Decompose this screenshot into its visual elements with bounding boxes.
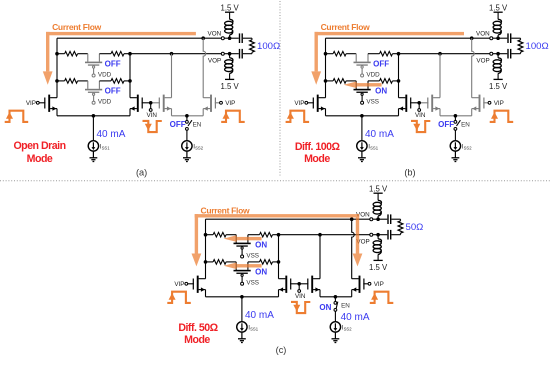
label 1.5V top (a) xyxy=(220,4,239,13)
capacitor C1 (c) xyxy=(387,214,391,224)
transistor M1 (c) xyxy=(188,276,206,293)
svg-text:100Ω: 100Ω xyxy=(526,41,549,52)
wire M3 source down (b) xyxy=(439,109,441,116)
label VIP left (c) xyxy=(174,281,184,288)
node row2 right (a) xyxy=(128,79,132,83)
current flow arrows (c) xyxy=(192,214,363,266)
wire M2 source down (a) xyxy=(129,109,131,116)
pin EN bottom (b) xyxy=(454,127,457,130)
node tail1 (c) xyxy=(240,295,244,299)
label ISS1 (b) xyxy=(368,143,378,150)
current flow row2 arrow (c) xyxy=(224,263,262,270)
label VOP (c) xyxy=(356,238,369,245)
power 1.5V bottom bar (c) xyxy=(374,259,383,261)
wire tail1 (a) xyxy=(57,115,130,117)
waveform VIP pulse right (a) xyxy=(221,111,245,122)
wire M3 source down (a) xyxy=(171,109,173,116)
svg-text:ISS1: ISS1 xyxy=(100,143,110,150)
wire switch to R2B (b) xyxy=(368,80,380,82)
svg-text:VON: VON xyxy=(476,30,490,37)
pmos switch SW2 (a) xyxy=(85,81,102,104)
svg-text:Current Flow: Current Flow xyxy=(52,22,102,32)
wire load top corner (c) xyxy=(400,219,402,221)
label SW2 gate supply (c) xyxy=(246,280,259,287)
label Current Flow (c) xyxy=(201,206,251,216)
svg-text:VDD: VDD xyxy=(98,72,112,79)
label 40 mA ISS1 (a) xyxy=(97,129,126,140)
wire M1 source down (a) xyxy=(56,109,58,116)
svg-text:ISS2: ISS2 xyxy=(342,324,352,331)
label 40 mA ISS1 (c) xyxy=(245,310,274,321)
pin VON (b) xyxy=(490,37,493,40)
label 1.5V bottom (a) xyxy=(220,82,239,91)
pin VIN (c) xyxy=(298,290,301,293)
svg-text:40 mA: 40 mA xyxy=(365,129,394,140)
node VON-drain junction (a) xyxy=(201,36,205,40)
label load value (b) xyxy=(526,41,549,52)
node tail2 (a) xyxy=(185,114,189,118)
power 1.5V top bar (b) xyxy=(494,11,503,13)
label VIN (b) xyxy=(415,112,426,119)
wire row2 to switch (c) xyxy=(226,261,236,263)
wire VON rail (a) xyxy=(57,37,203,39)
svg-text:OFF: OFF xyxy=(373,60,389,69)
pin VOP (c) xyxy=(370,233,373,236)
svg-text:Mode: Mode xyxy=(184,334,210,346)
label VIP left (b) xyxy=(294,100,304,107)
node tail1 (b) xyxy=(360,114,364,118)
resistor R1B (c) xyxy=(260,232,273,237)
pin EN bottom (c) xyxy=(334,309,337,312)
wire tail1 (b) xyxy=(326,115,399,117)
wire L1 to VON (c) xyxy=(377,216,379,219)
wire row1 left segment (a) xyxy=(57,53,65,55)
node row1 left (c) xyxy=(204,233,208,237)
label SW2 gate supply (a) xyxy=(98,99,112,106)
wire M4 source down (b) xyxy=(471,109,473,116)
ground ISS2 (c) xyxy=(332,332,340,342)
wire row2 left segment (b) xyxy=(326,80,334,82)
capacitor C2 (a) xyxy=(239,49,243,59)
transistor M2 (a) xyxy=(130,95,151,112)
svg-text:VSS: VSS xyxy=(246,280,259,287)
pmos switch SW1 (b) xyxy=(354,54,371,77)
wire row1 to switch (b) xyxy=(346,53,356,55)
resistor R2B (b) xyxy=(380,79,393,84)
pmos switch SW1 (a) xyxy=(85,54,102,77)
wire C1 to load (a) xyxy=(243,37,252,39)
capacitor C1 (b) xyxy=(507,33,511,43)
caption (a) xyxy=(136,167,147,177)
current flow arrow (b) xyxy=(311,32,464,85)
wire VOP line (b) xyxy=(399,53,490,55)
waveform VIP pulse left (c) xyxy=(167,292,191,303)
label SW1 state (a) xyxy=(105,60,121,69)
pin EN top (b) xyxy=(454,121,457,124)
wire VON to output (b) xyxy=(472,37,490,39)
wire VON out (b) xyxy=(493,37,508,39)
wire switch to R1B (b) xyxy=(368,53,380,55)
transistor M2 (c) xyxy=(279,276,300,293)
wire M4 source down (c) xyxy=(351,290,353,297)
svg-text:ISS2: ISS2 xyxy=(193,143,203,150)
transistor M4 (c) xyxy=(352,276,368,293)
node tail1 (a) xyxy=(92,114,96,118)
wire VON out (c) xyxy=(373,218,388,220)
wire switch to R1B (a) xyxy=(99,53,111,55)
node row1 right (b) xyxy=(397,52,401,56)
wire M3 drain rail (a) xyxy=(171,54,173,98)
node row2 right (c) xyxy=(277,260,281,264)
caption (c) xyxy=(276,345,287,355)
svg-text:OFF: OFF xyxy=(438,120,454,129)
svg-text:VDD: VDD xyxy=(98,99,112,106)
wire M2 source down (c) xyxy=(278,290,280,297)
pmos switch SW1 (c) xyxy=(234,235,251,258)
resistor RL (b) xyxy=(518,40,523,52)
power 1.5V bottom bar (b) xyxy=(494,78,503,80)
pmos switch SW2 (b) xyxy=(354,81,371,104)
svg-text:Open Drain: Open Drain xyxy=(13,140,65,152)
inductor L1 (c) xyxy=(373,200,381,216)
wire VON rail (c) xyxy=(206,218,352,220)
wire C2 to load (c) xyxy=(391,234,400,236)
ground ISS2 (a) xyxy=(183,151,191,161)
capacitor C2 (b) xyxy=(507,49,511,59)
wire supply to L1 (a) xyxy=(229,12,231,19)
wire L2 to supply (c) xyxy=(377,254,379,260)
waveform VIP pulse left (a) xyxy=(5,111,29,122)
wire VOP to L2 (a) xyxy=(229,54,231,58)
svg-text:ISS2: ISS2 xyxy=(462,143,472,150)
svg-text:VIP: VIP xyxy=(26,100,36,107)
label VOP (b) xyxy=(476,57,489,64)
svg-text:100Ω: 100Ω xyxy=(257,41,280,52)
wire row2 to switch (a) xyxy=(78,80,88,82)
wire VIN stub (c) xyxy=(298,284,300,290)
wire row1 left segment (b) xyxy=(326,53,334,55)
wire M3 source down (c) xyxy=(319,290,321,297)
power 1.5V top bar (c) xyxy=(374,192,383,194)
label VIP left (a) xyxy=(26,100,36,107)
label ISS2 (a) xyxy=(193,143,203,150)
label SW2 state (c) xyxy=(255,268,267,277)
label EN state (c) xyxy=(319,303,331,312)
inductor L2 (b) xyxy=(493,58,501,74)
wire VIN to M3 gate (b) xyxy=(421,102,428,104)
node VON-inductor (b) xyxy=(496,36,500,40)
wire supply to L1 (c) xyxy=(377,193,379,200)
node VOP-inductor (c) xyxy=(376,233,380,237)
wire load bottom corner (c) xyxy=(400,233,402,235)
wire right rail (c) xyxy=(278,235,280,279)
wire tail2 stem (b) xyxy=(454,116,456,121)
svg-text:50Ω: 50Ω xyxy=(406,222,424,233)
current flow row1 arrow (c) xyxy=(224,235,262,242)
label EN state (b) xyxy=(438,120,454,129)
svg-text:Mode: Mode xyxy=(304,153,330,165)
current source ISS1 (b) xyxy=(357,141,367,151)
wire VON rail (b) xyxy=(326,37,472,39)
wire M4 drain rail with hop (a) xyxy=(203,38,206,97)
node VIN junction (a) xyxy=(149,101,153,105)
wire switch to R1B (c) xyxy=(248,234,260,236)
svg-text:VSS: VSS xyxy=(366,99,379,106)
wire row2 to switch (b) xyxy=(346,80,356,82)
node VON-inductor (c) xyxy=(376,217,380,221)
power 1.5V bottom bar (a) xyxy=(225,78,234,80)
caption (b) xyxy=(404,167,415,177)
svg-text:40 mA: 40 mA xyxy=(97,129,126,140)
inductor L1 (a) xyxy=(225,19,233,35)
node VOP-M3 junction (b) xyxy=(438,52,442,56)
svg-text:Current Flow: Current Flow xyxy=(321,22,371,32)
pin EN top (a) xyxy=(186,121,189,124)
label 1.5V bottom (b) xyxy=(489,82,508,91)
wire VON out (a) xyxy=(224,37,239,39)
label VON (a) xyxy=(208,30,222,37)
svg-text:OFF: OFF xyxy=(170,120,186,129)
label SW1 gate supply (b) xyxy=(366,72,380,79)
wire load top corner (b) xyxy=(520,38,522,40)
label VON (b) xyxy=(476,30,490,37)
label load value (c) xyxy=(406,222,424,233)
label EN (a) xyxy=(193,121,202,128)
wire row1 to switch (c) xyxy=(226,234,236,236)
svg-text:ON: ON xyxy=(375,87,387,96)
wire VOP out (b) xyxy=(493,53,508,55)
node VOP-inductor (b) xyxy=(496,52,500,56)
wire tail2 stem (a) xyxy=(186,116,188,121)
node row2 left (a) xyxy=(55,79,59,83)
label load value (a) xyxy=(257,41,280,52)
wire M4 drain rail with hop (c) xyxy=(352,219,355,279)
wire L1 to VON (a) xyxy=(229,35,231,38)
wire tail2 stem (c) xyxy=(334,297,336,302)
waveform VIN pulse (b) xyxy=(411,121,430,132)
pin VIP left (c) xyxy=(185,282,188,285)
wire M1 source down (c) xyxy=(205,290,207,297)
wire C2 to load (b) xyxy=(511,53,520,55)
wire tail1 (c) xyxy=(206,296,279,298)
current source ISS1 (a) xyxy=(88,141,98,151)
wire tail1 stem (a) xyxy=(92,116,94,141)
switch EN blade open (a) xyxy=(188,120,192,126)
wire C1 to load (c) xyxy=(391,218,400,220)
ground ISS1 (a) xyxy=(90,151,98,161)
wire EN to ISS2 (c) xyxy=(334,311,336,321)
wire M2 source down (b) xyxy=(398,109,400,116)
node row1 left (a) xyxy=(55,52,59,56)
inductor L1 (b) xyxy=(493,19,501,35)
inductor L2 (a) xyxy=(225,58,233,74)
wire row2 right segment (c) xyxy=(273,261,279,263)
node row1 right (a) xyxy=(128,52,132,56)
svg-text:EN: EN xyxy=(341,302,350,309)
wire left rail (a) xyxy=(56,38,58,97)
node VOP-M3 junction (a) xyxy=(170,52,174,56)
resistor R1B (b) xyxy=(380,51,393,56)
svg-text:VDD: VDD xyxy=(366,72,380,79)
node row1 left (b) xyxy=(324,52,328,56)
current source ISS2 (a) xyxy=(182,141,192,151)
wire M3 drain rail (b) xyxy=(439,54,441,98)
switch EN blade closed (c) xyxy=(336,302,338,309)
separator horizontal dotted xyxy=(0,180,550,182)
svg-text:ISS1: ISS1 xyxy=(368,143,378,150)
node row2 left (b) xyxy=(324,79,328,83)
wire VOP to L2 (c) xyxy=(377,235,379,239)
waveform VIN pulse (c) xyxy=(291,302,310,313)
switch EN blade open (b) xyxy=(457,120,461,126)
transistor M4 (b) xyxy=(472,95,488,112)
node VOP-M3 junction (c) xyxy=(318,233,322,237)
wire row2 left segment (a) xyxy=(57,80,65,82)
power 1.5V top bar (a) xyxy=(225,11,234,13)
transistor M3 (b) xyxy=(427,95,440,112)
label VIN (c) xyxy=(295,293,306,300)
transistor M3 (c) xyxy=(307,276,320,293)
wire load top corner (a) xyxy=(251,38,253,40)
pin VIP right (a) xyxy=(220,101,223,104)
wire VIN to M3 gate (a) xyxy=(153,102,160,104)
wire row2 left segment (c) xyxy=(206,261,214,263)
svg-text:Diff. 100Ω: Diff. 100Ω xyxy=(295,141,341,153)
svg-text:VSS: VSS xyxy=(246,253,259,260)
wire C1 to load (b) xyxy=(511,37,520,39)
svg-text:1.5 V: 1.5 V xyxy=(220,82,239,91)
svg-text:VOP: VOP xyxy=(208,57,221,64)
wire L1 to VON (b) xyxy=(497,35,499,38)
label VON (c) xyxy=(356,211,370,218)
waveform VIP pulse right (c) xyxy=(370,292,394,303)
svg-text:VIN: VIN xyxy=(146,112,157,119)
node VON-inductor (a) xyxy=(228,36,232,40)
node row1 right (c) xyxy=(277,233,281,237)
ground ISS1 (b) xyxy=(358,151,366,161)
wire VOP line (c) xyxy=(279,234,370,236)
label ISS2 (c) xyxy=(342,324,352,331)
svg-text:VOP: VOP xyxy=(476,57,489,64)
resistor R2B (c) xyxy=(260,260,273,265)
label ISS1 (c) xyxy=(248,324,258,331)
label VIP right (c) xyxy=(374,281,384,288)
waveform VIP pulse left (b) xyxy=(286,111,310,122)
svg-text:VIN: VIN xyxy=(295,293,306,300)
label Current Flow (a) xyxy=(52,22,102,32)
pin VIP right (c) xyxy=(368,282,371,285)
label VOP (a) xyxy=(208,57,221,64)
label SW1 state (b) xyxy=(373,60,389,69)
inductor L2 (c) xyxy=(373,239,381,255)
wire load bottom corner (a) xyxy=(251,52,253,54)
svg-text:VIP: VIP xyxy=(494,100,504,107)
current flow row2 arrow (b) xyxy=(344,82,382,89)
svg-text:(a): (a) xyxy=(136,167,147,177)
wire left rail (b) xyxy=(325,38,327,97)
svg-text:1.5 V: 1.5 V xyxy=(220,4,239,13)
pin VOP (b) xyxy=(490,52,493,55)
wire tail2 (a) xyxy=(172,115,204,117)
pin VIN (a) xyxy=(149,109,152,112)
label SW2 state (b) xyxy=(375,87,387,96)
svg-text:(c): (c) xyxy=(276,345,287,355)
label SW1 gate supply (a) xyxy=(98,72,112,79)
label ISS1 (a) xyxy=(100,143,110,150)
node tail2 (b) xyxy=(454,114,458,118)
svg-text:OFF: OFF xyxy=(105,60,121,69)
label SW1 gate supply (c) xyxy=(246,253,259,260)
node VON-drain junction (b) xyxy=(470,36,474,40)
label Diff 50 Mode (c) xyxy=(178,322,218,346)
label VIP right (a) xyxy=(225,100,235,107)
svg-text:VIP: VIP xyxy=(174,281,184,288)
pin EN top (c) xyxy=(334,302,337,305)
node VON-drain junction (c) xyxy=(350,217,354,221)
wire load bottom corner (b) xyxy=(520,52,522,54)
pmos switch SW2 (c) xyxy=(234,262,251,285)
current flow arrow (a) xyxy=(43,32,196,85)
waveform VIP pulse right (b) xyxy=(490,111,514,122)
wire VON to output (a) xyxy=(203,37,221,39)
wire row1 right segment (a) xyxy=(124,53,130,55)
wire tail2 (b) xyxy=(440,115,472,117)
wire VOP line (a) xyxy=(130,53,221,55)
wire tail1 stem (b) xyxy=(361,116,363,141)
label EN state (a) xyxy=(170,120,186,129)
svg-text:OFF: OFF xyxy=(105,87,121,96)
svg-text:1.5 V: 1.5 V xyxy=(489,4,508,13)
wire L2 to supply (b) xyxy=(497,73,499,79)
wire row1 to switch (a) xyxy=(78,53,88,55)
wire VIN stub (b) xyxy=(418,103,420,109)
wire row2 right segment (b) xyxy=(393,80,399,82)
current source ISS2 (c) xyxy=(330,322,340,332)
label SW2 state (a) xyxy=(105,87,121,96)
wire VOP to L2 (b) xyxy=(497,54,499,58)
svg-text:1.5 V: 1.5 V xyxy=(489,82,508,91)
node row2 right (b) xyxy=(397,79,401,83)
wire VIN stub (a) xyxy=(150,103,152,109)
svg-text:40 mA: 40 mA xyxy=(245,310,274,321)
label SW2 gate supply (b) xyxy=(366,99,379,106)
wire VOP out (c) xyxy=(373,234,388,236)
svg-text:ON: ON xyxy=(255,268,267,277)
svg-text:VIP: VIP xyxy=(374,281,384,288)
label Diff 100 Mode (b) xyxy=(295,141,341,165)
svg-text:ON: ON xyxy=(255,241,267,250)
label 1.5V bottom (c) xyxy=(369,263,388,272)
wire supply to L1 (b) xyxy=(497,12,499,19)
resistor R1A (a) xyxy=(65,51,78,56)
resistor R2B (a) xyxy=(111,79,124,84)
resistor R1A (c) xyxy=(213,232,226,237)
wire row1 right segment (b) xyxy=(393,53,399,55)
transistor M2 (b) xyxy=(399,95,420,112)
wire tail2 (c) xyxy=(320,296,352,298)
transistor M1 (b) xyxy=(308,95,326,112)
wire row1 right segment (c) xyxy=(273,234,279,236)
waveform VIN pulse (a) xyxy=(143,121,162,132)
label 40 mA ISS1 (b) xyxy=(365,129,394,140)
label EN (b) xyxy=(461,121,470,128)
resistor R1A (b) xyxy=(333,51,346,56)
label SW1 state (c) xyxy=(255,241,267,250)
svg-text:Mode: Mode xyxy=(27,153,53,165)
label VIN (a) xyxy=(146,112,157,119)
label 1.5V top (b) xyxy=(489,4,508,13)
svg-text:ON: ON xyxy=(319,303,331,312)
